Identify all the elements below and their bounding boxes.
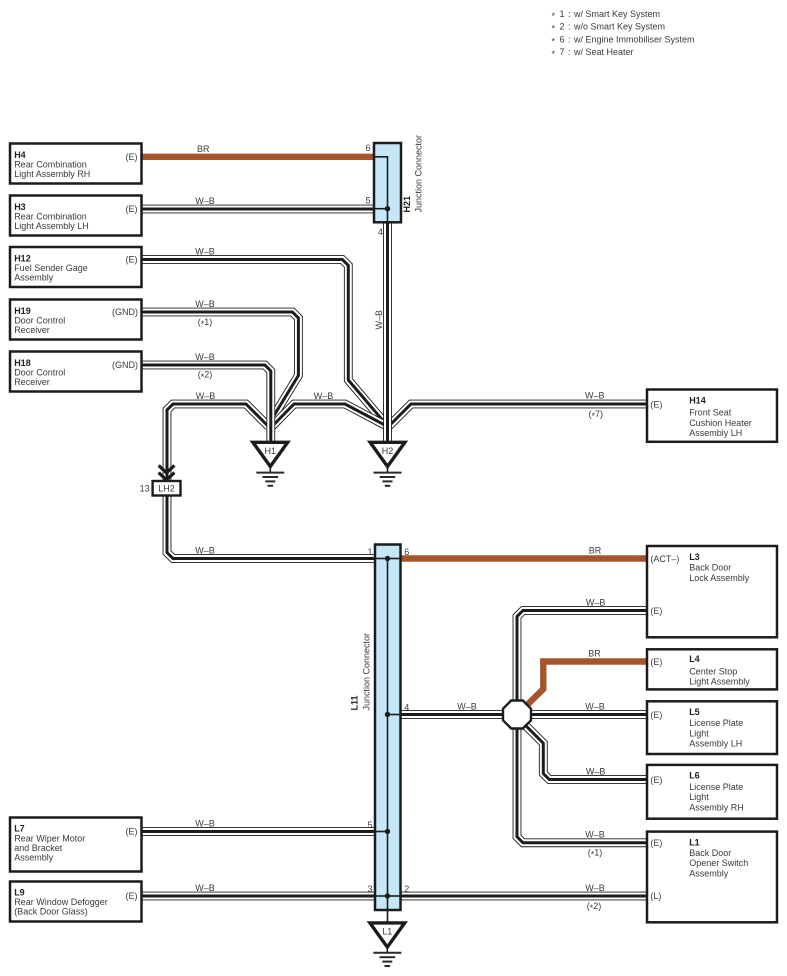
component box L9 (10, 882, 142, 922)
wire W-B H3 to H21 pin 5 (142, 205, 375, 214)
connector LH2 (140, 465, 181, 495)
wire BR H4 to H21 pin 6 (142, 154, 375, 160)
svg-text:L6: L6 (689, 771, 700, 781)
component box H19 (10, 300, 142, 340)
wire W-B H12 to H2 ground (142, 260, 388, 426)
svg-text:Door Control: Door Control (14, 368, 65, 378)
svg-text:(E): (E) (126, 204, 138, 214)
svg-text:Receiver: Receiver (14, 377, 50, 387)
component box L5 (647, 701, 777, 754)
svg-text:L7: L7 (14, 824, 25, 834)
wire L11 bottom to L1 ground (387, 910, 389, 922)
svg-text:Light Assembly LH: Light Assembly LH (14, 221, 89, 231)
svg-text:Center Stop: Center Stop (689, 666, 737, 676)
component box H12 (10, 247, 142, 287)
svg-text:*1:w/ Smart Key System: *1:w/ Smart Key System (552, 9, 661, 21)
component box H18 (10, 352, 142, 392)
svg-text:W–B: W–B (196, 391, 216, 401)
svg-text:BR: BR (589, 546, 602, 556)
wire W-B L11 pin 4 to splice (401, 710, 504, 719)
svg-text:1: 1 (367, 547, 372, 557)
component box L7 (10, 818, 142, 872)
L11 inner stub pin2 (388, 895, 401, 897)
L11 inner stub pin4 (388, 714, 401, 716)
svg-text:License Plate: License Plate (689, 782, 743, 792)
svg-text:*6:w/ Engine Immobiliser Syste: *6:w/ Engine Immobiliser System (552, 34, 695, 46)
svg-text:L5: L5 (689, 707, 700, 717)
svg-text:L1: L1 (382, 927, 392, 937)
svg-text:H3: H3 (14, 202, 26, 212)
svg-text:4: 4 (404, 703, 409, 713)
svg-text:W–B: W–B (195, 546, 215, 556)
svg-text:Back Door: Back Door (689, 563, 731, 573)
svg-text:L1: L1 (689, 837, 700, 847)
wire W-B H2 to H14 (388, 404, 648, 428)
junction connector L11 (375, 545, 401, 911)
svg-text:BR: BR (197, 144, 210, 154)
H21 inner wire pin6 to pin4 (374, 157, 388, 222)
svg-text:(Back Door Glass): (Back Door Glass) (14, 907, 88, 917)
svg-text:5: 5 (367, 820, 372, 830)
junction dot L11 pin4 (385, 712, 390, 717)
svg-text:L4: L4 (689, 654, 700, 664)
svg-text:Junction Connector: Junction Connector (362, 633, 372, 711)
svg-text:W–B: W–B (374, 310, 384, 330)
svg-text:Junction Connector: Junction Connector (414, 135, 424, 213)
svg-text:(E): (E) (650, 399, 662, 409)
wire BR splice to L4 (E) (526, 662, 648, 707)
svg-text:Assembly LH: Assembly LH (689, 739, 742, 749)
ground H1 (253, 442, 288, 486)
svg-text:Light Assembly RH: Light Assembly RH (14, 169, 90, 179)
svg-text:L9: L9 (14, 888, 25, 898)
svg-text:L11: L11 (350, 695, 360, 710)
component box H3 (10, 196, 142, 236)
L11 inner stub pin1 (375, 558, 388, 560)
svg-text:(E): (E) (650, 775, 662, 785)
junction dot L11 pin5 (385, 829, 390, 834)
svg-text:W–B: W–B (195, 247, 215, 257)
svg-text:W–B: W–B (585, 702, 605, 712)
svg-text:Receiver: Receiver (14, 325, 50, 335)
wire W-B L7 to L11 pin 5 (142, 827, 376, 836)
svg-text:(*1): (*1) (198, 317, 213, 329)
wire W-B H19 to H1 ground (142, 312, 299, 421)
svg-text:W–B: W–B (195, 196, 215, 206)
svg-text:Assembly LH: Assembly LH (689, 428, 742, 438)
wire W-B L9 to L11 pin 3 (142, 892, 376, 901)
wire W-B splice to L5 (E) (531, 710, 647, 719)
svg-text:W–B: W–B (195, 883, 215, 893)
component box L3 (647, 546, 777, 637)
svg-text:BR: BR (588, 648, 601, 658)
svg-text:License Plate: License Plate (689, 718, 743, 728)
component box H4 (10, 144, 142, 184)
svg-text:H1: H1 (265, 446, 277, 456)
svg-text:(E): (E) (650, 838, 662, 848)
junction dot H21 pin5 (385, 206, 390, 211)
svg-text:2: 2 (404, 884, 409, 894)
svg-text:(E): (E) (126, 152, 138, 162)
svg-text:H18: H18 (14, 358, 31, 368)
svg-text:(GND): (GND) (112, 360, 138, 370)
svg-text:(E): (E) (650, 657, 662, 667)
svg-text:(L): (L) (650, 891, 661, 901)
svg-text:H14: H14 (689, 396, 706, 406)
svg-text:Opener Switch: Opener Switch (689, 858, 748, 868)
svg-text:Rear Combination: Rear Combination (14, 160, 87, 170)
svg-text:Assembly: Assembly (14, 273, 54, 283)
H21 inner wire stub pin5 (374, 208, 388, 210)
svg-text:W–B: W–B (585, 391, 605, 401)
svg-text:(E): (E) (126, 891, 138, 901)
L11 inner stub pin5 (375, 831, 388, 833)
svg-text:H12: H12 (14, 254, 31, 264)
svg-text:3: 3 (367, 884, 372, 894)
wire W-B splice to L6 (E) (526, 726, 647, 780)
svg-text:Lock Assembly: Lock Assembly (689, 573, 750, 583)
component box H14 (647, 390, 777, 442)
svg-text:Light: Light (689, 728, 709, 738)
component box L6 (647, 765, 777, 819)
svg-text:Assembly: Assembly (14, 853, 54, 863)
L11 inner stub pin6 (388, 558, 401, 560)
svg-text:W–B: W–B (586, 597, 606, 607)
svg-text:H4: H4 (14, 150, 26, 160)
svg-text:(*1): (*1) (588, 848, 603, 860)
component box L4 (647, 649, 777, 689)
junction connector H21 (374, 143, 401, 222)
svg-text:W–B: W–B (585, 830, 605, 840)
svg-text:Assembly RH: Assembly RH (689, 802, 744, 812)
svg-text:5: 5 (365, 196, 370, 206)
L11 inner wire vertical (387, 559, 389, 911)
component box L1 (647, 832, 777, 923)
svg-text:(*2): (*2) (587, 901, 602, 913)
svg-text:*7:w/ Seat Heater: *7:w/ Seat Heater (552, 47, 634, 59)
svg-text:Back Door: Back Door (689, 848, 731, 858)
ground H2 (370, 442, 405, 486)
svg-text:Fuel Sender Gage: Fuel Sender Gage (14, 263, 88, 273)
svg-text:(E): (E) (650, 710, 662, 720)
wire W-B ground bus left segment to LH2 connector (167, 404, 269, 482)
ground L1 (370, 923, 405, 966)
svg-text:(E): (E) (650, 606, 662, 616)
svg-text:W–B: W–B (586, 766, 606, 776)
svg-text:6: 6 (365, 143, 370, 153)
wire W-B ground bus H1 to H2 (271, 404, 388, 428)
svg-text:Light Assembly: Light Assembly (689, 677, 750, 687)
svg-text:W–B: W–B (585, 883, 605, 893)
svg-text:Rear Window Defogger: Rear Window Defogger (14, 897, 108, 907)
wire W-B H18 to H1 ground (142, 365, 271, 441)
svg-text:(*7): (*7) (589, 409, 604, 421)
svg-text:13: 13 (140, 484, 150, 494)
svg-text:4: 4 (378, 227, 383, 237)
svg-text:(GND): (GND) (112, 307, 138, 317)
svg-text:H2: H2 (382, 446, 394, 456)
svg-text:W–B: W–B (457, 702, 477, 712)
svg-text:Rear Wiper Motor: Rear Wiper Motor (14, 834, 85, 844)
svg-text:(*2): (*2) (198, 370, 213, 382)
svg-text:Cushion Heater: Cushion Heater (689, 418, 752, 428)
svg-text:L3: L3 (689, 552, 700, 562)
svg-text:(E): (E) (126, 827, 138, 837)
svg-text:LH2: LH2 (158, 484, 175, 494)
wire W-B splice down to L1 (E) (517, 729, 647, 843)
svg-text:Rear Combination: Rear Combination (14, 212, 87, 222)
svg-text:W–B: W–B (195, 299, 215, 309)
L11 inner stub pin3 (375, 895, 388, 897)
svg-text:W–B: W–B (195, 352, 215, 362)
svg-text:Door Control: Door Control (14, 316, 65, 326)
svg-text:Assembly: Assembly (689, 868, 729, 878)
splice octagon (503, 701, 531, 729)
svg-text:H19: H19 (14, 306, 31, 316)
svg-text:(E): (E) (126, 255, 138, 265)
wire BR L11 pin 6 to L3 (ACT-) (401, 555, 648, 561)
junction dot L11 pin3 (385, 893, 390, 898)
wire W-B H21 pin 4 down to H2 ground (383, 222, 392, 441)
wire W-B L11 pin 2 to L1 (L) (401, 892, 648, 901)
wire W-B splice up to L3 (E) (517, 611, 647, 701)
svg-text:Light: Light (689, 792, 709, 802)
svg-text:W–B: W–B (314, 391, 334, 401)
svg-text:and Bracket: and Bracket (14, 843, 63, 853)
svg-text:*2:w/o Smart Key System: *2:w/o Smart Key System (552, 22, 666, 34)
svg-text:(ACT–): (ACT–) (650, 554, 679, 564)
svg-text:6: 6 (404, 547, 409, 557)
junction dot L11 pin1 (385, 556, 390, 561)
svg-text:Front Seat: Front Seat (689, 408, 732, 418)
svg-text:W–B: W–B (195, 819, 215, 829)
wire W-B LH2 connector to L11 pin 1 (167, 496, 375, 559)
svg-text:H21: H21 (402, 196, 412, 213)
